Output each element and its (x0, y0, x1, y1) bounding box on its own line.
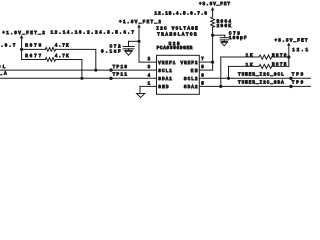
junction dot VREF2/EN (211, 61, 214, 64)
wire R678 to SCL1 net (95, 49, 97, 70)
svg-text:4.7K: 4.7K (55, 54, 69, 59)
svg-text:TUNER_I2C_SCL: TUNER_I2C_SCL (238, 72, 284, 77)
junction dot R675/SCL2 (227, 77, 230, 80)
svg-text:TP10: TP10 (113, 65, 128, 70)
wire R676 to SDA2 (220, 57, 222, 86)
ground (C73) (221, 40, 227, 46)
wire R677 to SDA1 net (81, 60, 83, 79)
svg-text:12.1: 12.1 (292, 48, 308, 53)
wire VREF2 pin 7 (199, 61, 212, 63)
svg-text:+3.3V_FET: +3.3V_FET (199, 2, 230, 7)
svg-text:TUNER_I2C_SDA: TUNER_I2C_SDA (238, 80, 284, 85)
svg-text:CL: CL (0, 65, 6, 70)
junction dot R678/SCL1 (94, 69, 97, 72)
resistor R678 (22, 48, 96, 52)
svg-text:TP9: TP9 (292, 80, 304, 85)
ground (C72) (125, 49, 133, 55)
resistor R676 (221, 55, 289, 59)
svg-text:R677: R677 (25, 54, 41, 59)
svg-text:R675: R675 (272, 63, 287, 68)
svg-text:GND: GND (158, 85, 169, 90)
svg-text:1K: 1K (246, 63, 253, 68)
power +3.3V_FET symbol (top, R664) (211, 7, 215, 17)
ground (GND pin 1) (137, 86, 157, 97)
testpoint TP11 (109, 77, 112, 80)
power +1.8V_FET_2 symbol (left) (20, 35, 24, 60)
junction dot R664/C73 (211, 34, 214, 37)
svg-text:0.1uF: 0.1uF (101, 49, 121, 54)
junction dot C72 tap (137, 40, 140, 43)
wire EN pin 8 (199, 62, 212, 70)
power +3.3V_FET symbol (right) (287, 43, 291, 67)
svg-text:VREF2: VREF2 (181, 61, 198, 66)
IC U25 PCA9306DGER (157, 55, 200, 94)
svg-text:SDA1: SDA1 (158, 77, 172, 82)
junction dot +1.8V rail / R678 (20, 48, 23, 51)
wire R675 to SCL2 (228, 66, 230, 78)
svg-text:+3.3V_FET: +3.3V_FET (275, 38, 308, 43)
svg-text:1K: 1K (246, 54, 253, 59)
testpoint TP8 (289, 77, 292, 80)
svg-text:200K: 200K (217, 24, 232, 29)
svg-text:_A: _A (0, 72, 7, 77)
wire SDA1 (left bus to pin 4) (0, 77, 157, 79)
junction dot R676/SDA2 (219, 85, 222, 88)
svg-text:PCA9306DGER: PCA9306DGER (157, 46, 193, 51)
svg-text:I2C VOLTAGE: I2C VOLTAGE (156, 26, 198, 31)
junction dot +3.3V/R676 (287, 55, 290, 58)
capacitor C73 (213, 35, 229, 40)
svg-text:+1.8V_FET_2: +1.8V_FET_2 (2, 31, 45, 36)
svg-text:SCL1: SCL1 (158, 69, 172, 74)
resistor R675 (229, 64, 289, 68)
wire SDA2 / TUNER_I2C_SDA (199, 85, 310, 87)
resistor R664 (vertical) (211, 17, 215, 62)
svg-text:4.7K: 4.7K (55, 44, 69, 49)
svg-text:TRANSLATOR: TRANSLATOR (157, 32, 197, 37)
junction dot R677/SDA1 (80, 77, 83, 80)
svg-text:SCL2: SCL2 (184, 77, 198, 82)
wire SCL2 / TUNER_I2C_SCL (199, 77, 310, 79)
svg-text:12.14.16.2.24.3.5.6.7: 12.14.16.2.24.3.5.6.7 (51, 30, 135, 35)
svg-text:100pF: 100pF (229, 36, 247, 41)
wire SCL1 (left bus to pin 3) (0, 69, 157, 71)
svg-text:.6.7: .6.7 (1, 43, 16, 48)
svg-text:SDA2: SDA2 (184, 85, 198, 90)
svg-text:EN: EN (191, 69, 198, 74)
resistor R677 (22, 58, 82, 62)
testpoint TP9 (289, 85, 292, 88)
svg-text:12.15.4.5.6.7.8: 12.15.4.5.6.7.8 (155, 12, 208, 17)
svg-text:+1.8V_FET_2: +1.8V_FET_2 (119, 20, 161, 25)
power +1.8V_FET_2 symbol (near U25) (137, 24, 156, 62)
svg-text:VREF1: VREF1 (158, 61, 175, 66)
testpoint TP10 (109, 68, 112, 71)
svg-text:R678: R678 (25, 44, 41, 49)
svg-text:TP8: TP8 (292, 72, 304, 77)
capacitor C72 (123, 41, 139, 49)
svg-text:R676: R676 (272, 53, 287, 58)
svg-text:TP11: TP11 (113, 73, 128, 78)
